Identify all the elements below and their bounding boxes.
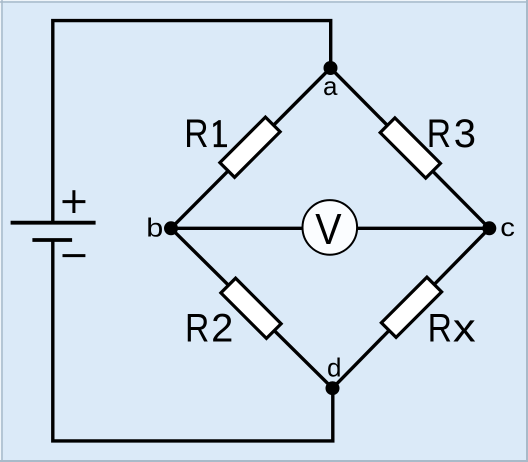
svg-text:b: b xyxy=(146,212,163,242)
svg-text:x: x xyxy=(453,306,476,350)
wire a-b (diamond upper left) xyxy=(171,68,331,228)
battery negative plate xyxy=(32,238,72,242)
svg-text:a: a xyxy=(323,71,338,101)
svg-text:V: V xyxy=(315,205,342,254)
svg-text:c: c xyxy=(500,212,515,242)
svg-text:R: R xyxy=(428,306,452,350)
wire a-c (diamond upper right) xyxy=(331,68,490,228)
svg-text:d: d xyxy=(327,353,341,383)
battery positive plate xyxy=(11,221,96,225)
wire d-c (diamond lower right) xyxy=(333,228,490,388)
battery plus sign xyxy=(63,190,86,213)
resistor R3 xyxy=(380,118,440,178)
battery minus sign xyxy=(63,254,86,257)
node a xyxy=(324,61,338,75)
svg-text:R: R xyxy=(185,307,209,351)
wire bottom loop (battery- to node d) xyxy=(53,240,333,441)
wire top loop (battery+ to node a) xyxy=(53,21,331,222)
svg-text:R: R xyxy=(427,112,451,156)
svg-text:3: 3 xyxy=(454,112,476,156)
voltmeter V xyxy=(303,200,358,255)
wire b-c bridge (through voltmeter) xyxy=(171,227,489,230)
resistor R2 xyxy=(221,278,281,338)
svg-text:2: 2 xyxy=(211,307,233,351)
wire b-d (diamond lower left) xyxy=(171,228,333,388)
resistor Rx xyxy=(381,277,441,337)
resistor R1 xyxy=(220,117,280,177)
node d xyxy=(326,381,340,395)
svg-text:R: R xyxy=(184,112,208,156)
node b xyxy=(164,221,178,235)
node c xyxy=(482,221,496,235)
